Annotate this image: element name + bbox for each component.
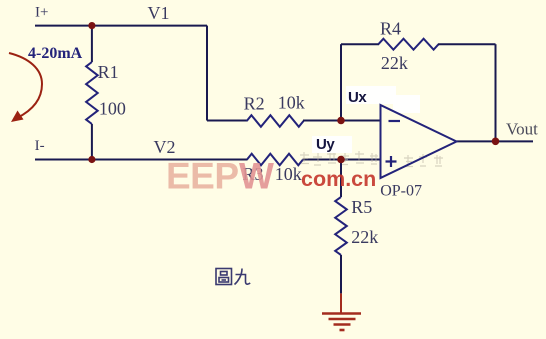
- resistor R2: [247, 115, 304, 127]
- svg-text:V1: V1: [148, 3, 170, 23]
- figure caption 圖九 (drawn glyphs): [216, 269, 250, 285]
- svg-text:com.cn: com.cn: [301, 167, 376, 191]
- white patch near Uy: [312, 136, 352, 153]
- node I+ junction: [88, 22, 95, 29]
- svg-text:Vout: Vout: [506, 120, 538, 139]
- svg-text:Ux: Ux: [348, 89, 367, 106]
- wire feedback drop to output: [495, 44, 497, 141]
- op-amp U1: [381, 105, 457, 178]
- svg-text:R4: R4: [380, 19, 401, 39]
- ground: [322, 314, 361, 331]
- wire output: [457, 140, 534, 142]
- wire feedback top left: [341, 43, 379, 45]
- svg-text:10k: 10k: [278, 93, 305, 113]
- svg-text:22k: 22k: [381, 53, 408, 73]
- resistor R5: [335, 197, 347, 255]
- wire node Uy down to R5: [340, 160, 342, 198]
- wire into R2: [207, 120, 248, 122]
- wire R5 bottom lead: [340, 255, 342, 293]
- ground stem (red): [340, 293, 342, 313]
- wire R2 to inverting input: [303, 120, 381, 122]
- op-amp minus sign: [389, 120, 401, 122]
- white patch right of Ux: [393, 95, 420, 113]
- svg-text:R5: R5: [351, 197, 372, 217]
- svg-text:R2: R2: [244, 94, 265, 114]
- wire R1 bottom lead: [91, 124, 93, 160]
- resistor R1: [86, 62, 98, 124]
- svg-text:4-20mA: 4-20mA: [28, 45, 83, 62]
- watermark EEPW: [166, 156, 274, 197]
- node Uy: [337, 156, 345, 164]
- node Ux: [337, 117, 345, 125]
- resistor R4: [378, 39, 438, 50]
- wire R3 to non-inverting input: [303, 159, 381, 161]
- svg-text:22k: 22k: [351, 227, 378, 247]
- svg-text:W: W: [239, 156, 274, 197]
- current loop arrow: [9, 53, 42, 118]
- svg-text:100: 100: [99, 99, 126, 119]
- wire R1 top lead: [91, 26, 93, 62]
- svg-text:I+: I+: [35, 5, 48, 21]
- svg-text:10k: 10k: [275, 164, 302, 184]
- svg-text:Uy: Uy: [316, 136, 335, 153]
- svg-text:OP-07: OP-07: [380, 183, 422, 200]
- wire I- bottom rail: [35, 159, 248, 161]
- wire feedback top right: [438, 43, 496, 45]
- svg-text:EEP: EEP: [166, 156, 239, 197]
- wire feedback riser from node Ux: [340, 44, 342, 120]
- watermark gray characters: [300, 151, 443, 167]
- wire I+ top rail: [35, 25, 207, 27]
- resistor R3: [247, 154, 303, 166]
- op-amp plus sign: [386, 156, 397, 167]
- wire V1 vertical drop: [206, 26, 208, 121]
- white patch near Ux: [346, 86, 396, 104]
- svg-text:R1: R1: [98, 62, 119, 82]
- svg-text:V2: V2: [154, 137, 176, 157]
- svg-text:I-: I-: [35, 138, 45, 154]
- node Vout junction: [492, 138, 500, 146]
- node I- junction: [88, 156, 95, 163]
